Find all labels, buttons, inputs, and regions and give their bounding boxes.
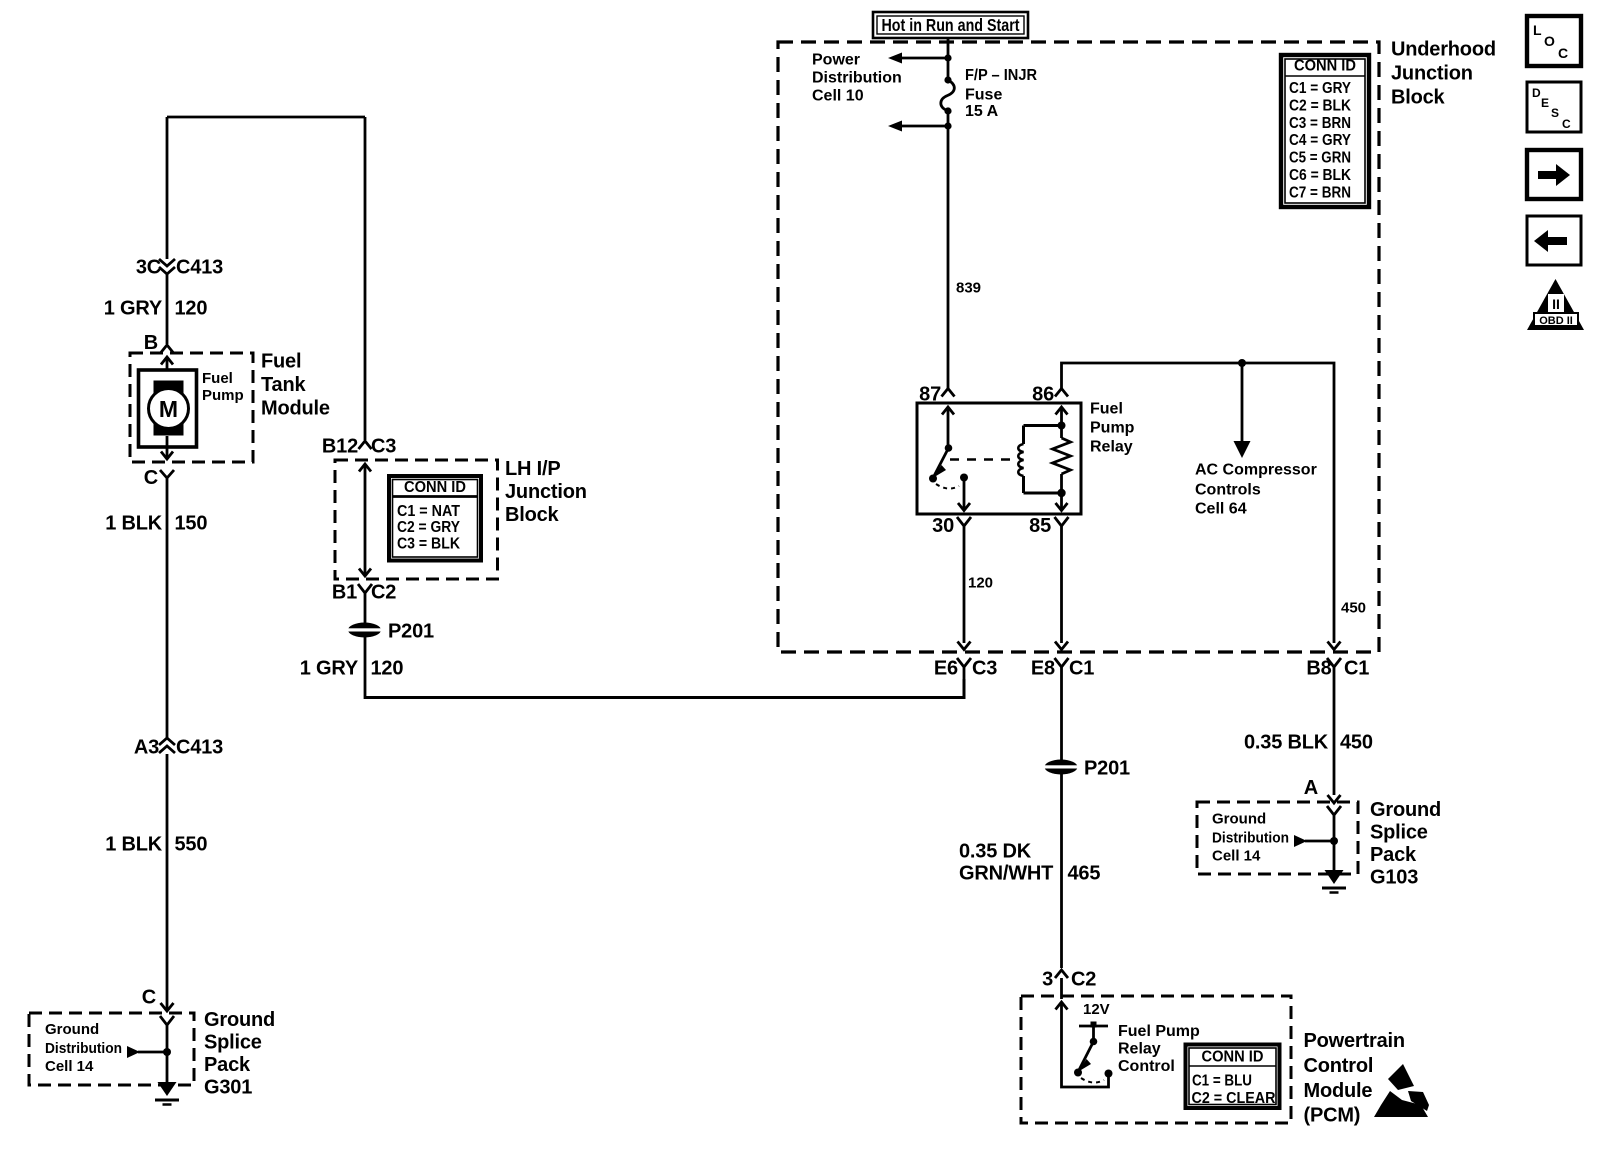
splice P201 (right) <box>1043 758 1130 780</box>
label 1 BLK 150 <box>105 513 207 535</box>
svg-text:C1 = GRY: C1 = GRY <box>1289 80 1351 97</box>
label 0.35 DK GRN/WHT 465 <box>959 841 1100 885</box>
svg-text:II: II <box>1552 296 1560 312</box>
svg-text:CONN ID: CONN ID <box>404 479 466 496</box>
splice arrow from cell 14 text (G301) <box>127 1046 171 1058</box>
svg-text:(PCM): (PCM) <box>1304 1105 1361 1127</box>
connector pin A ground splice pack <box>1304 777 1341 803</box>
connector 3 C2 (PCM) <box>1042 969 1096 991</box>
svg-text:G103: G103 <box>1370 867 1418 889</box>
label AC Compressor Controls Cell 64 <box>1195 462 1317 518</box>
svg-text:Controls: Controls <box>1195 482 1261 499</box>
connector E8 C1 <box>1031 642 1094 680</box>
svg-text:Ground: Ground <box>45 1021 99 1038</box>
svg-text:Fuel Pump: Fuel Pump <box>1118 1023 1200 1040</box>
svg-text:Relay: Relay <box>1118 1041 1161 1058</box>
label Underhood Junction Block <box>1391 39 1496 109</box>
wire 1 GRY 120 to junction <box>364 636 367 699</box>
svg-text:Fuse: Fuse <box>965 87 1002 104</box>
svg-text:C1 = BLU: C1 = BLU <box>1192 1073 1252 1090</box>
PCM 12V supply bar <box>1079 1001 1110 1045</box>
svg-text:C413: C413 <box>176 737 223 759</box>
wire B8 down 0.35 BLK 450 <box>1333 679 1336 795</box>
PCM internal circuit: entry arrow and L wire <box>1056 1002 1113 1087</box>
svg-text:AC Compressor: AC Compressor <box>1195 462 1317 479</box>
label 0.35 BLK 450 <box>1244 732 1373 754</box>
relay pin 86 internal <box>1056 407 1068 430</box>
svg-text:Distribution: Distribution <box>1212 830 1289 847</box>
label F/P - INJR Fuse 15 A <box>965 67 1037 120</box>
svg-text:Pump: Pump <box>1090 420 1135 437</box>
svg-text:Control: Control <box>1304 1055 1374 1077</box>
relay switch contact to pin 30 <box>936 474 970 511</box>
node junction below fuse <box>944 122 951 129</box>
svg-text:Cell 64: Cell 64 <box>1195 501 1247 518</box>
wire top horizontal feed <box>167 116 365 119</box>
label Ground Splice Pack G103 <box>1370 799 1441 889</box>
connector B1 C2 <box>332 582 396 604</box>
connector E6 C3 <box>934 642 997 680</box>
wire long horizontal to E6 <box>365 679 964 698</box>
wire left vertical to connector C413 <box>166 117 169 259</box>
svg-text:Junction: Junction <box>505 481 587 503</box>
svg-text:Distribution: Distribution <box>45 1040 122 1057</box>
svg-text:C7 = BRN: C7 = BRN <box>1289 184 1351 201</box>
label 1 BLK 550 <box>105 834 207 856</box>
svg-text:Module: Module <box>261 398 330 420</box>
svg-text:O: O <box>1544 33 1555 49</box>
svg-text:Pump: Pump <box>202 387 244 404</box>
connector Y below entry (G103) <box>1327 806 1341 822</box>
svg-text:M: M <box>159 396 178 422</box>
svg-text:Underhood: Underhood <box>1391 39 1496 61</box>
svg-text:1 BLK: 1 BLK <box>105 513 163 535</box>
svg-text:1 GRY: 1 GRY <box>300 658 359 680</box>
fuel pump relay box <box>917 403 1081 514</box>
label 1 GRY 120 (lower) <box>300 658 404 680</box>
CONN ID table (underhood) <box>1281 55 1369 207</box>
wire inside G103 <box>1333 822 1336 872</box>
svg-text:0.35 BLK: 0.35 BLK <box>1244 732 1329 754</box>
svg-text:GRN/WHT: GRN/WHT <box>959 863 1053 885</box>
svg-text:E: E <box>1541 96 1549 110</box>
connector pin 85 <box>1029 515 1068 537</box>
svg-text:Control: Control <box>1118 1058 1175 1075</box>
svg-text:Distribution: Distribution <box>812 70 902 87</box>
label Power Distribution Cell 10 <box>812 52 902 105</box>
PCM switch blade (fuel pump relay control driver) <box>1074 1042 1104 1083</box>
svg-text:LH I/P: LH I/P <box>505 458 560 480</box>
svg-text:F/P – INJR: F/P – INJR <box>965 67 1037 84</box>
LH I/P junction block dashed box <box>335 460 498 579</box>
svg-text:CONN ID: CONN ID <box>1294 58 1356 75</box>
svg-text:C3: C3 <box>371 436 396 458</box>
svg-text:C4 = GRY: C4 = GRY <box>1289 132 1351 149</box>
svg-text:B: B <box>144 332 158 354</box>
wire arrow to AC compressor controls <box>1234 363 1251 458</box>
svg-text:120: 120 <box>968 575 993 592</box>
svg-text:A3: A3 <box>134 737 159 759</box>
svg-text:E8: E8 <box>1031 658 1055 680</box>
label Fuel Pump Relay Control <box>1118 1023 1200 1075</box>
svg-text:C2: C2 <box>1071 969 1096 991</box>
label Ground Distribution Cell 14 (G301) <box>45 1021 122 1075</box>
svg-text:1 BLK: 1 BLK <box>105 834 163 856</box>
svg-text:3: 3 <box>1042 969 1053 991</box>
svg-text:B12: B12 <box>322 436 358 458</box>
wire from hot label down <box>947 38 950 80</box>
svg-text:C3: C3 <box>972 658 997 680</box>
svg-text:C: C <box>1562 117 1571 131</box>
wire into PCM <box>1060 978 1063 999</box>
svg-text:Ground: Ground <box>1370 799 1441 821</box>
svg-text:C1 = NAT: C1 = NAT <box>397 503 460 520</box>
svg-text:85: 85 <box>1029 515 1051 537</box>
svg-text:Pack: Pack <box>1370 844 1417 866</box>
icon DESC <box>1527 82 1581 132</box>
svg-text:C2 = CLEAR: C2 = CLEAR <box>1192 1090 1276 1107</box>
svg-text:L: L <box>1533 22 1542 38</box>
svg-text:120: 120 <box>371 658 404 680</box>
relay pin 85 internal <box>1056 489 1068 511</box>
svg-text:0.35 DK: 0.35 DK <box>959 841 1032 863</box>
wire arrow to power distribution (top) <box>888 53 948 64</box>
svg-text:C: C <box>144 467 158 489</box>
svg-text:450: 450 <box>1341 600 1366 617</box>
wire 1 BLK 150 <box>166 487 169 738</box>
wire 1 GRY 120 (to fuel tank) <box>166 274 169 344</box>
wire into pump with up arrow <box>161 357 173 381</box>
svg-text:E6: E6 <box>934 658 958 680</box>
connector pin C fuel tank module <box>144 467 174 489</box>
svg-text:465: 465 <box>1068 863 1101 885</box>
svg-text:C3 = BRN: C3 = BRN <box>1289 115 1351 132</box>
label Ground Splice Pack G301 <box>204 1009 275 1099</box>
connector pin 30 <box>932 515 971 537</box>
splice P201 (left) <box>346 621 434 643</box>
label LH I/P Junction Block <box>505 458 587 526</box>
svg-text:450: 450 <box>1340 732 1373 754</box>
svg-text:Splice: Splice <box>1370 822 1428 844</box>
svg-text:Fuel: Fuel <box>261 351 301 373</box>
underhood junction block dashed box <box>778 42 1379 652</box>
svg-text:Block: Block <box>1391 87 1446 109</box>
connector pin B fuel tank module <box>144 332 174 354</box>
svg-text:12V: 12V <box>1083 1001 1110 1018</box>
svg-text:C1: C1 <box>1344 658 1369 680</box>
wire out of pump with down arrow <box>161 436 173 459</box>
svg-text:Module: Module <box>1304 1080 1373 1102</box>
CONN ID table (LH I/P) <box>389 476 481 561</box>
wire pin 86 up and across to B8 <box>1062 363 1335 643</box>
svg-text:Ground: Ground <box>204 1009 275 1031</box>
fuel tank module dashed box <box>130 353 253 462</box>
svg-text:C1: C1 <box>1069 658 1094 680</box>
ESD sensitive symbol <box>1374 1064 1429 1117</box>
svg-text:C3 = BLK: C3 = BLK <box>397 536 460 553</box>
svg-text:OBD II: OBD II <box>1539 315 1573 327</box>
wire E8 down to P201 <box>1060 679 1063 761</box>
wire arrow to power distribution (bottom) <box>888 121 948 132</box>
wire 1 BLK 550 <box>166 754 169 1010</box>
fuel pump motor M <box>139 370 197 447</box>
label box Hot in Run and Start <box>873 12 1028 38</box>
svg-text:Powertrain: Powertrain <box>1304 1030 1405 1052</box>
svg-text:C2 = GRY: C2 = GRY <box>397 519 460 536</box>
svg-text:Fuel: Fuel <box>1090 401 1123 418</box>
svg-text:C: C <box>142 987 156 1009</box>
svg-text:Power: Power <box>812 52 860 69</box>
connector A3 C413 <box>134 737 223 759</box>
relay resistor <box>1053 426 1071 494</box>
icon arrow left <box>1527 216 1581 265</box>
svg-text:15 A: 15 A <box>965 103 999 120</box>
svg-text:P201: P201 <box>388 621 434 643</box>
svg-text:Tank: Tank <box>261 374 306 396</box>
svg-text:3C: 3C <box>136 257 161 279</box>
svg-text:C2 = BLK: C2 = BLK <box>1289 97 1351 114</box>
ground splice pack G301 dashed box <box>29 1013 194 1085</box>
label Ground Distribution Cell 14 (G103) <box>1212 811 1289 865</box>
connector B8 C1 <box>1306 642 1369 680</box>
ground splice pack G103 dashed box <box>1197 802 1358 874</box>
svg-text:C5 = GRN: C5 = GRN <box>1289 150 1351 167</box>
svg-text:Block: Block <box>505 504 560 526</box>
svg-text:30: 30 <box>932 515 954 537</box>
node junction AC compressor tap <box>1238 359 1246 367</box>
svg-text:120: 120 <box>175 298 208 320</box>
label Fuel Pump Relay <box>1090 401 1135 456</box>
icon arrow right <box>1527 150 1581 199</box>
svg-text:Cell 14: Cell 14 <box>1212 848 1261 865</box>
connector pin 86 <box>1032 384 1068 406</box>
relay switch blade <box>929 448 949 483</box>
svg-text:S: S <box>1551 106 1559 120</box>
svg-text:Pack: Pack <box>204 1054 251 1076</box>
PCM dashed box <box>1021 996 1291 1123</box>
connector B12 C3 <box>322 436 396 458</box>
relay mechanical link dashed <box>950 458 1011 460</box>
svg-text:150: 150 <box>175 513 208 535</box>
wire 0.35 DK GRN/WHT 465 <box>1060 773 1063 968</box>
splice arrow from cell 14 text (G103) <box>1294 835 1338 847</box>
wire through junction block with arrows <box>359 464 371 576</box>
svg-text:B1: B1 <box>332 582 357 604</box>
connector Y below entry (G301) <box>160 1016 174 1032</box>
svg-text:Fuel: Fuel <box>202 370 233 387</box>
svg-text:C6 = BLK: C6 = BLK <box>1289 167 1351 184</box>
wire to P201 <box>364 602 367 624</box>
wire vertical to LH I/P junction block <box>364 117 367 440</box>
svg-text:CONN ID: CONN ID <box>1202 1049 1264 1066</box>
svg-text:D: D <box>1532 86 1541 100</box>
svg-text:P201: P201 <box>1084 758 1130 780</box>
relay coil <box>1018 426 1061 494</box>
connector pin C ground splice pack <box>142 987 174 1012</box>
svg-text:550: 550 <box>175 834 208 856</box>
svg-text:Ground: Ground <box>1212 811 1266 828</box>
svg-text:1 GRY: 1 GRY <box>104 298 163 320</box>
CONN ID table (PCM) <box>1186 1045 1280 1109</box>
icon LOC <box>1527 16 1581 66</box>
label 1 GRY 120 <box>104 298 208 320</box>
ground symbol G301 <box>155 1082 179 1105</box>
fuse F/P-INJR 15 A <box>941 76 955 114</box>
label Fuel Pump <box>202 370 244 404</box>
wire 120 pin 30 to E6 <box>963 534 966 643</box>
svg-text:C2: C2 <box>371 582 396 604</box>
ground symbol G103 <box>1322 870 1346 893</box>
wire inside G301 <box>166 1032 169 1084</box>
connector pin 87 <box>919 384 954 406</box>
wire pin 85 to E8 <box>1060 534 1063 643</box>
svg-text:Cell 10: Cell 10 <box>812 88 864 105</box>
label Fuel Tank Module <box>261 351 330 420</box>
wire 839 to relay pin 87 <box>947 111 950 388</box>
node junction above fuse <box>944 54 951 61</box>
svg-text:A: A <box>1304 777 1318 799</box>
svg-text:Cell 14: Cell 14 <box>45 1058 94 1075</box>
svg-text:C: C <box>1558 45 1568 61</box>
svg-text:C413: C413 <box>176 257 223 279</box>
icon OBD II warning triangle <box>1527 279 1584 330</box>
svg-text:Relay: Relay <box>1090 439 1133 456</box>
svg-text:Hot in Run and Start: Hot in Run and Start <box>882 15 1020 35</box>
svg-text:Junction: Junction <box>1391 63 1473 85</box>
svg-text:839: 839 <box>956 280 981 297</box>
svg-text:G301: G301 <box>204 1077 252 1099</box>
label Powertrain Control Module (PCM) <box>1304 1030 1405 1127</box>
svg-text:Splice: Splice <box>204 1032 262 1054</box>
relay switch pin 87 internal <box>942 407 954 452</box>
connector 3C C413 <box>136 257 223 279</box>
